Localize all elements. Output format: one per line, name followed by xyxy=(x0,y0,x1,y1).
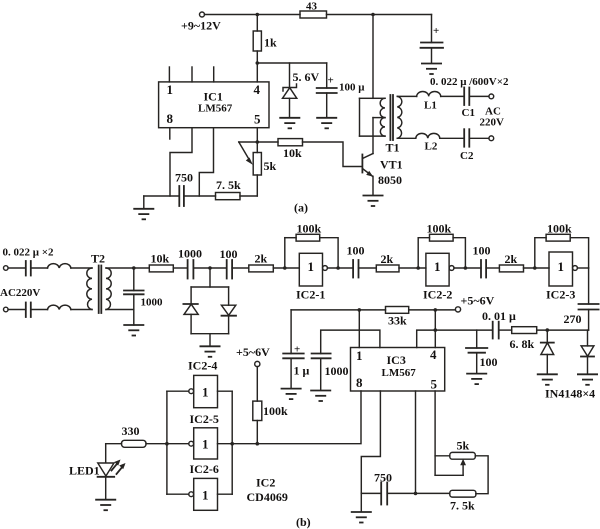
ground (LED1) xyxy=(95,500,116,511)
svg-text:LM567: LM567 xyxy=(198,103,233,115)
svg-text:100k: 100k xyxy=(427,222,452,236)
capacitor 100u xyxy=(317,63,366,118)
svg-text:100k: 100k xyxy=(263,404,288,418)
capacitor 100 (series after limiter) xyxy=(220,247,249,279)
svg-text:2k: 2k xyxy=(505,252,518,266)
ground (100 filter) xyxy=(466,374,487,385)
capacitor 1000 (series) xyxy=(178,247,227,279)
svg-text:220V: 220V xyxy=(480,117,505,129)
wire: T2 secondary top to 10k xyxy=(106,267,149,269)
wire: pin5 to 5k left end xyxy=(435,455,450,457)
capacitor C2 xyxy=(460,129,489,162)
terminal +5~6V (inverters) xyxy=(255,361,260,366)
resistor 33k xyxy=(386,307,409,328)
node: junction T2/1000 cap xyxy=(132,266,136,270)
svg-text:(a): (a) xyxy=(294,201,308,215)
wire xyxy=(8,309,26,311)
wire: T1 tap to collector xyxy=(372,118,374,154)
wire: feedback right leg IC2-2 xyxy=(453,238,465,268)
svg-text:7. 5k: 7. 5k xyxy=(216,178,241,192)
wire: IC3 pin 1 to rail xyxy=(358,310,360,348)
ground (electrolytic) xyxy=(421,64,442,75)
pin stub IC1 pin 8 xyxy=(169,128,171,139)
capacitor electrolytic (top right) xyxy=(421,15,444,64)
inverter IC2-1 xyxy=(296,253,353,301)
svg-text:43: 43 xyxy=(306,1,318,13)
wire: IC3 pin 8 to inverter bank xyxy=(232,391,361,444)
terminal AC out bottom xyxy=(489,136,494,141)
resistor 2k (third) xyxy=(499,252,549,272)
svg-text:8050: 8050 xyxy=(378,173,402,187)
resistor 7.5k (b) xyxy=(387,490,476,512)
svg-text:0. 022 μ /600V×2: 0. 022 μ /600V×2 xyxy=(430,76,509,88)
wire to T2 primary top xyxy=(71,267,92,269)
capacitor 750 (b) xyxy=(361,471,392,505)
resistor 6.8k xyxy=(510,327,589,351)
capacitor 0.01u xyxy=(482,309,516,339)
wire to T2 primary bottom xyxy=(71,309,92,311)
svg-text:1: 1 xyxy=(167,82,174,97)
wire: 10k to transistor base xyxy=(303,142,362,167)
capacitor 1000 (IC3 pin) xyxy=(312,330,380,390)
transformer T1 xyxy=(360,95,402,155)
svg-text:100k: 100k xyxy=(547,222,572,236)
svg-text:2k: 2k xyxy=(381,252,394,266)
capacitor 100 (IC2-1 to IC2-2) xyxy=(347,244,377,278)
resistor 2k (second) xyxy=(376,252,426,272)
svg-text:0. 022 μ ×2: 0. 022 μ ×2 xyxy=(3,247,55,259)
wire: 0.01u / 6.8k line xyxy=(435,329,492,331)
node: pin5 junction xyxy=(255,140,259,144)
ground (IN4148 left) xyxy=(537,374,558,385)
wire: IC1 pin 5 lead xyxy=(256,128,258,153)
wire: T1 secondary bottom to L2 xyxy=(397,137,416,139)
capacitor 100 (IC3 filter) xyxy=(466,330,498,373)
terminal AC in top (b) xyxy=(4,266,9,271)
resistor 2k (first) xyxy=(249,252,299,272)
svg-text:IC2-5: IC2-5 xyxy=(190,412,219,426)
svg-text:+: + xyxy=(328,75,334,87)
wire: T1 secondary top to L1 xyxy=(397,95,416,97)
wire + ground (limiter) xyxy=(209,334,211,346)
inductor L1 xyxy=(417,92,465,112)
wire: IC3 bottom pin straight to timing line xyxy=(415,391,417,493)
resistor 43 xyxy=(300,1,327,19)
wire: branch to zener and 100u xyxy=(257,62,326,64)
wire: feedback left leg IC2-3 xyxy=(535,238,546,268)
svg-text:1: 1 xyxy=(558,259,565,274)
pin stubs IC1 top xyxy=(169,67,213,82)
svg-text:750: 750 xyxy=(175,171,193,185)
ground (1000) xyxy=(310,391,331,402)
zener diode 5.6V xyxy=(283,63,320,118)
svg-text:IC2-6: IC2-6 xyxy=(190,462,219,476)
wire xyxy=(8,267,26,269)
svg-text:1000: 1000 xyxy=(178,247,202,261)
resistor 100k (pull-up) xyxy=(253,367,288,444)
terminal AC in bottom (b) xyxy=(4,307,9,312)
node: input junction IC2-3 xyxy=(533,266,537,270)
transistor VT1 8050 xyxy=(362,154,402,196)
svg-text:1000: 1000 xyxy=(141,297,164,309)
label AC 220V output xyxy=(480,106,505,129)
wire: IC3 bottom pin jog to timing node xyxy=(361,391,380,493)
node xyxy=(336,266,340,270)
svg-text:+5~6V: +5~6V xyxy=(236,345,270,359)
inductor L2 xyxy=(416,133,464,152)
wire: IC3 pin 5 down xyxy=(434,391,436,475)
svg-text:L2: L2 xyxy=(425,141,438,153)
resistor 10k (b) xyxy=(149,252,187,272)
node: input junction IC2-2 xyxy=(416,266,420,270)
svg-text:(b): (b) xyxy=(296,515,311,529)
svg-text:5k: 5k xyxy=(457,439,470,453)
resistor 100k (IC2-2) xyxy=(427,222,454,242)
svg-text:IC2-4: IC2-4 xyxy=(188,359,217,373)
node: junction Vcc/zener branch xyxy=(255,61,259,65)
inverter IC2-3 xyxy=(546,252,589,302)
wire: feedback right leg IC2-3 xyxy=(570,238,588,268)
terminal +5~6V (IC3) xyxy=(455,307,460,312)
ground (1u) xyxy=(281,389,302,400)
terminal +9~12V xyxy=(181,12,221,33)
svg-text:1 μ: 1 μ xyxy=(294,364,310,378)
potentiometer 5k (b) xyxy=(450,439,488,494)
svg-text:1: 1 xyxy=(308,259,315,274)
op-amp IC1 LM567 xyxy=(159,82,269,128)
node xyxy=(464,266,468,270)
svg-text:0. 01 μ: 0. 01 μ xyxy=(482,309,516,323)
svg-text:330: 330 xyxy=(122,424,140,438)
svg-text:CD4069: CD4069 xyxy=(247,490,288,504)
ground (T2) xyxy=(123,325,144,336)
svg-text:C2: C2 xyxy=(460,150,474,162)
svg-text:IC2-3: IC2-3 xyxy=(546,288,575,302)
diode IN4148 (right) xyxy=(581,330,594,374)
svg-text:1000: 1000 xyxy=(325,364,349,378)
svg-text:1: 1 xyxy=(434,259,441,274)
ground (zener) xyxy=(279,118,300,129)
node xyxy=(165,442,169,446)
svg-text:IC2-1: IC2-1 xyxy=(296,288,325,302)
resistor 7.5k xyxy=(216,178,258,200)
transformer T2 xyxy=(87,252,111,314)
svg-text:10k: 10k xyxy=(151,252,170,266)
svg-text:1: 1 xyxy=(202,385,209,400)
svg-text:100 μ: 100 μ xyxy=(339,82,365,94)
svg-text:IC3: IC3 xyxy=(387,353,406,367)
svg-text:5k: 5k xyxy=(264,159,277,173)
node xyxy=(546,328,550,332)
svg-text:4: 4 xyxy=(254,82,261,97)
wire down to limiter box xyxy=(209,268,211,287)
inductor filter top (b) xyxy=(48,264,71,268)
svg-text:33k: 33k xyxy=(388,314,407,328)
ground (750 / IC1) xyxy=(143,196,145,209)
svg-text:C1: C1 xyxy=(462,107,475,119)
wire: +5~6V rail (b, IC3) xyxy=(291,309,385,311)
svg-text:5. 6V: 5. 6V xyxy=(293,70,320,84)
svg-text:IC2-2: IC2-2 xyxy=(423,288,452,302)
svg-text:LM567: LM567 xyxy=(382,367,417,379)
node: junction rail / transformer xyxy=(371,13,375,17)
svg-text:1: 1 xyxy=(202,437,209,452)
capacitor 0.022u top xyxy=(26,261,48,276)
wire: IC3 output pin jog to RC network xyxy=(417,330,436,347)
resistor 10k xyxy=(257,139,302,160)
wire: IC1 third bottom pin to 750/7.5k node xyxy=(199,128,213,196)
diode limiter pair (box) xyxy=(183,287,236,334)
svg-text:100: 100 xyxy=(473,244,491,258)
ground (750 b) xyxy=(360,493,362,511)
node xyxy=(414,492,418,496)
capacitor 1u electrolytic xyxy=(283,310,309,388)
svg-text:10k: 10k xyxy=(283,146,302,160)
svg-text:270: 270 xyxy=(564,312,582,326)
resistor 1k xyxy=(253,15,277,64)
wire: rail down to T1 primary xyxy=(372,15,374,99)
svg-text:IC1: IC1 xyxy=(204,90,223,104)
svg-text:8: 8 xyxy=(356,375,363,390)
svg-text:+9~12V: +9~12V xyxy=(181,19,221,33)
wire: IC1 second bottom pin to cap/ground node xyxy=(170,128,192,196)
svg-text:100: 100 xyxy=(480,355,498,369)
capacitor 0.022u bottom xyxy=(26,303,48,318)
svg-text:8: 8 xyxy=(167,111,174,126)
LED1 xyxy=(69,460,126,500)
svg-text:LED1: LED1 xyxy=(69,464,100,478)
terminal AC out top xyxy=(489,94,494,99)
node: input junction IC2-1 xyxy=(283,266,287,270)
node xyxy=(255,442,259,446)
svg-text:100k: 100k xyxy=(297,222,322,236)
node: junction top rail / 1k xyxy=(255,13,259,17)
svg-text:4: 4 xyxy=(430,347,437,362)
wire: pin5 to 5k wiper xyxy=(435,474,463,476)
svg-text:5: 5 xyxy=(431,377,438,392)
svg-text:100: 100 xyxy=(220,247,238,261)
capacitor 750 xyxy=(144,171,216,207)
node xyxy=(358,308,362,312)
wire: feedback left leg IC2-2 xyxy=(418,238,429,268)
svg-text:+5~6V: +5~6V xyxy=(461,294,495,308)
svg-text:2k: 2k xyxy=(255,252,268,266)
svg-text:T2: T2 xyxy=(91,252,105,266)
svg-text:1: 1 xyxy=(202,488,209,503)
wire: feedback right leg IC2-1 xyxy=(320,238,338,268)
capacitor 100 (IC2-2 to IC2-3) xyxy=(473,244,500,278)
svg-text:AC220V: AC220V xyxy=(0,287,40,299)
wire: IC3 pin 4 to rail xyxy=(434,310,436,348)
svg-text:+: + xyxy=(294,344,300,356)
inverter IC2-2 xyxy=(423,253,481,301)
inverter IC2-5 xyxy=(167,412,232,459)
wire: feedback left leg IC2-1 xyxy=(284,238,286,268)
resistor 100k (IC2-3) xyxy=(546,222,572,242)
ground (IN4148 right) xyxy=(577,374,598,385)
wire: pin 4 lead into IC1 xyxy=(256,63,258,82)
svg-text:L1: L1 xyxy=(424,100,437,112)
svg-text:IN4148×4: IN4148×4 xyxy=(545,387,595,401)
capacitor C1 xyxy=(462,88,489,120)
inverter IC2-4 xyxy=(167,359,232,408)
svg-text:T1: T1 xyxy=(386,141,400,155)
capacitor 1000 (T2) xyxy=(124,268,163,325)
node: junction limiter diodes xyxy=(208,266,212,270)
inverter IC2-6 xyxy=(167,462,232,510)
op-amp IC3 LM567 xyxy=(351,347,445,392)
svg-text:1k: 1k xyxy=(264,36,277,50)
capacitor 270 xyxy=(564,304,599,330)
svg-text:7. 5k: 7. 5k xyxy=(450,499,475,513)
label IC2 CD4069 xyxy=(247,476,288,505)
ground (VT1 emitter) xyxy=(363,196,384,207)
svg-text:6. 8k: 6. 8k xyxy=(510,337,535,351)
svg-text:+: + xyxy=(433,25,439,37)
svg-text:100: 100 xyxy=(347,244,365,258)
inductor filter bottom (b) xyxy=(48,305,71,309)
ground (100u) xyxy=(316,118,337,129)
resistor 330 xyxy=(106,424,167,463)
node xyxy=(434,308,438,312)
wire: IC2-3 out down to 270 cap xyxy=(588,268,590,304)
svg-text:IC2: IC2 xyxy=(256,476,275,490)
wire: T2 secondary bottom xyxy=(106,309,134,311)
diode IN4148 (left) xyxy=(541,330,554,374)
svg-text:VT1: VT1 xyxy=(380,158,403,172)
svg-text:750: 750 xyxy=(374,471,392,485)
wire: inverter bank left bus xyxy=(166,391,168,494)
potentiometer 5k xyxy=(239,142,277,196)
resistor 100k (IC2-1) xyxy=(296,222,321,242)
wire: inverter bank right bus xyxy=(231,391,233,494)
svg-text:1: 1 xyxy=(356,348,363,363)
wire: top supply rail (a) xyxy=(205,14,432,16)
node xyxy=(230,442,234,446)
svg-text:5: 5 xyxy=(254,112,261,127)
